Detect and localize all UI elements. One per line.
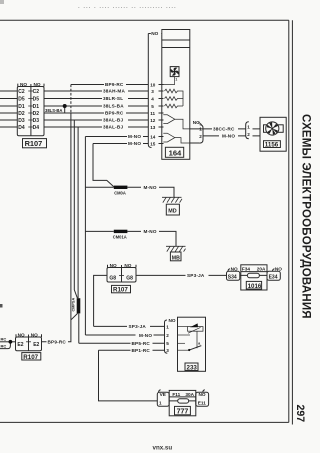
junction node at E2 input — [9, 340, 13, 344]
motor inner band — [264, 125, 284, 133]
motor 1156 body — [260, 117, 286, 151]
svg-text:233: 233 — [187, 364, 198, 371]
bottom link from 164 to bracket — [190, 142, 200, 144]
wire SP3-JA to 233 pin1 — [94, 325, 165, 327]
wire label SP3-JA — [186, 273, 209, 279]
svg-text:M-NO: M-NO — [128, 141, 141, 146]
svg-text:2: 2 — [166, 333, 169, 338]
pressure element box — [188, 327, 204, 332]
E2 pin names — [17, 342, 39, 348]
fuse element wire through — [169, 400, 196, 402]
svg-text:NO: NO — [169, 318, 176, 323]
svg-text:20A: 20A — [257, 267, 266, 272]
svg-text:2: 2 — [199, 134, 202, 139]
svg-text:S34: S34 — [228, 274, 237, 280]
label NO at 164 top — [151, 29, 161, 36]
pin tick 11 — [159, 112, 164, 114]
fuse 777 header line — [169, 396, 196, 398]
pin tick 14 — [159, 136, 164, 138]
branch to splice CM01A — [85, 230, 113, 232]
wire CM0A to ground MD — [127, 187, 174, 197]
svg-text:СХЕМЫ ЭЛЕКТРООБОРУДОВАНИЯ: СХЕМЫ ЭЛЕКТРООБОРУДОВАНИЯ — [300, 114, 312, 319]
unit 164 header line 2 — [162, 47, 190, 49]
ground MB hatch — [166, 246, 186, 251]
svg-text:VE: VE — [160, 392, 166, 397]
svg-text:C2: C2 — [33, 89, 40, 95]
BP1-RC riser down to fuse 777 — [99, 350, 158, 401]
internal stub pin5 — [178, 342, 186, 344]
svg-text:D1: D1 — [18, 104, 25, 110]
wire label BP1-RC (233) — [131, 348, 153, 354]
splice output to E2 row — [71, 313, 78, 319]
wire label M-NO — [219, 133, 238, 138]
svg-text:NO: NO — [20, 82, 27, 87]
svg-text:38AH-MA: 38AH-MA — [103, 89, 125, 94]
arrow 1 output step to pin 1 — [175, 119, 190, 129]
G8 top ears — [108, 265, 137, 268]
resistor R-speed2 — [165, 97, 184, 106]
wire label M-NO (ground MB) — [141, 229, 159, 235]
arrow symbol output 1 — [163, 115, 175, 124]
switch pivot dot — [188, 349, 190, 351]
svg-text:1156: 1156 — [265, 142, 279, 149]
svg-text:NO: NO — [151, 31, 158, 36]
unit 164 header line 1 — [162, 39, 190, 41]
junction stub from node dot down — [64, 106, 66, 113]
svg-text:R107: R107 — [25, 139, 43, 148]
pressure element diagonal — [188, 327, 201, 333]
page frame bottom border — [0, 421, 289, 423]
svg-text:D1: D1 — [33, 104, 40, 110]
wire BP9-RC row pin 10 — [71, 84, 148, 86]
svg-text:38LS-BA: 38LS-BA — [103, 104, 124, 109]
E34 hook — [273, 269, 275, 272]
branch to splice CM0A — [85, 186, 113, 188]
unit 164 body — [162, 30, 190, 160]
wire label M-NO (ground MD) — [141, 184, 159, 190]
svg-text:15: 15 — [150, 141, 156, 146]
internal stub pin2 — [178, 334, 191, 336]
wire run BP9-RC vertical to E2 connector — [42, 113, 71, 342]
svg-text:D4: D4 — [33, 125, 40, 131]
svg-text:2: 2 — [247, 132, 250, 137]
fan wheel blades — [267, 122, 278, 135]
label box R107 (G8) — [112, 285, 131, 293]
svg-text:MB: MB — [172, 255, 180, 261]
svg-text:E2: E2 — [17, 342, 23, 348]
svg-text:13: 13 — [150, 125, 156, 130]
connector E2 divider — [28, 337, 30, 351]
arrow 2 output step to bottom exit — [175, 138, 190, 143]
fan icon glyph inside 164 — [171, 68, 179, 76]
connector R107 (top) top ears — [18, 84, 44, 87]
wire M-NO to 233 pin2 — [85, 334, 164, 336]
svg-text:E2: E2 — [33, 342, 39, 348]
wire SP3-JA from G8 to fuse S34 — [136, 274, 227, 276]
motor connector bracket 1156 — [246, 122, 249, 139]
svg-text:SP3-JA: SP3-JA — [129, 324, 147, 329]
svg-text:NO: NO — [124, 263, 131, 268]
svg-text:1: 1 — [199, 127, 202, 132]
page frame second vertical rule — [291, 20, 293, 424]
wire 38AL-BJ row D3 to pin 12 — [44, 119, 148, 121]
wire stub RC lower from margin joins node — [0, 342, 10, 349]
wire BP1-RC to 233 pin3 — [99, 349, 165, 351]
svg-text:NO: NO — [110, 263, 117, 268]
E2 top ears — [16, 334, 42, 337]
internal feed from pin10 to fan — [164, 77, 175, 85]
fuse 1016 body — [241, 265, 267, 290]
svg-text:1016: 1016 — [248, 283, 262, 290]
page frame top border — [0, 19, 289, 21]
splice output to BP5-RC row — [78, 313, 80, 343]
connector R107 E2 body — [16, 337, 42, 351]
svg-text:30A: 30A — [185, 392, 194, 397]
label box 233 — [185, 363, 198, 371]
connector R107 (top) divider — [30, 87, 32, 136]
svg-text:CMPSA: CMPSA — [72, 298, 76, 312]
wire into R107 pin C2 from left margin — [0, 90, 17, 92]
svg-text:38LS-BA: 38LS-BA — [45, 108, 62, 113]
element to contact vertical — [196, 331, 198, 348]
svg-text:M-NO: M-NO — [128, 134, 141, 139]
connector R107 G8 body — [107, 268, 136, 283]
svg-text:1: 1 — [247, 124, 250, 129]
junction node on wire 38LS-BA — [63, 104, 67, 108]
pin tick 4 — [159, 98, 164, 100]
svg-text:NO: NO — [231, 266, 238, 271]
ground MD hatch — [162, 197, 182, 202]
internal stub pin3 — [178, 349, 189, 351]
label box 1156 — [264, 141, 281, 149]
wire label M-NO (233) — [136, 332, 154, 338]
NO supply stub into 164 top — [148, 33, 162, 35]
fuse element wire through — [240, 274, 267, 276]
svg-text:vnx.su: vnx.su — [153, 444, 173, 451]
svg-text:5: 5 — [151, 104, 154, 109]
233 pin numbers — [166, 324, 169, 353]
svg-text:F11: F11 — [172, 392, 180, 397]
svg-text:D3: D3 — [33, 118, 40, 124]
resistor R-speed3 — [165, 104, 184, 108]
splice CM01A bar — [114, 230, 128, 233]
label box 164 — [165, 147, 183, 157]
svg-text:E34: E34 — [269, 274, 278, 280]
svg-text:777: 777 — [177, 409, 189, 416]
svg-text:SP3-JA: SP3-JA — [187, 273, 205, 278]
svg-text:5: 5 — [166, 341, 169, 346]
svg-text:BP9-RC: BP9-RC — [105, 82, 124, 87]
wire BP9-RC row D2 to pin 11 — [44, 112, 148, 114]
svg-text:4: 4 — [151, 96, 154, 101]
svg-text:10: 10 — [150, 82, 156, 87]
margin wire labels RC — [1, 337, 7, 349]
svg-text:. ... . .... ...... .. .......: . ... . .... ...... .. ......... .... — [78, 4, 177, 10]
corner scan speck — [0, 0, 4, 4]
svg-text:M-NO: M-NO — [139, 333, 152, 338]
svg-text:M-NO: M-NO — [144, 229, 157, 234]
wire 38LR-SL row D5 to pin 4 — [44, 98, 148, 100]
wire 38CC-RC pin1 to motor — [190, 128, 246, 130]
wire 38AH-MA row C2 to pin 3 — [44, 90, 148, 92]
svg-text:NO: NO — [275, 266, 282, 271]
motor connector pin stubs into body — [253, 129, 261, 136]
fan wheel circle — [266, 122, 279, 135]
resistor R-speed1 — [165, 89, 184, 98]
wire BP5-RC to 233 pin5 — [79, 342, 165, 344]
svg-text:CM01A: CM01A — [113, 235, 127, 240]
svg-text:BP9-RC: BP9-RC — [105, 111, 124, 116]
svg-text:CM0A: CM0A — [114, 191, 126, 196]
fuse holder E11 — [196, 392, 209, 406]
svg-text:a: a — [198, 342, 201, 346]
pin tick 13 — [159, 126, 164, 128]
svg-text:38AL-BJ: 38AL-BJ — [103, 125, 123, 130]
wire M-NO row pin 14 — [85, 136, 148, 138]
pressure element arrow head — [190, 323, 198, 327]
fuse holder VE/1 — [157, 392, 169, 406]
E11 hook — [203, 390, 205, 393]
svg-text:BP9-RC: BP9-RC — [48, 340, 67, 345]
svg-text:M-NO: M-NO — [222, 134, 235, 139]
connector R107 (top) pin link stubs across divider — [28, 91, 33, 127]
switch 233 body — [178, 317, 206, 371]
svg-text:M-NO: M-NO — [144, 185, 157, 190]
pin tick 10 — [159, 84, 164, 86]
label box R107 (top) — [23, 139, 47, 148]
svg-text:D5: D5 — [33, 97, 40, 103]
svg-text:G8: G8 — [126, 275, 133, 281]
wire into R107 pin D2 from left margin — [0, 112, 17, 114]
ground MD box — [166, 204, 179, 215]
connector bracket of 164 — [148, 34, 151, 148]
svg-text:BP5-RC: BP5-RC — [132, 341, 151, 346]
output bracket hook to NO — [198, 123, 202, 126]
svg-text:D4: D4 — [18, 125, 25, 131]
connector G8 divider — [121, 268, 123, 283]
connector R107 (top) body — [17, 87, 44, 136]
svg-text:RC: RC — [1, 337, 7, 342]
svg-text:NO: NO — [18, 333, 25, 338]
label box 1016 — [246, 281, 262, 290]
label backgrounds — [102, 82, 143, 146]
left margin speck — [0, 304, 3, 308]
wire 38AL-BJ row D4 to pin 13 — [44, 126, 148, 128]
label box 777 — [175, 406, 191, 415]
svg-text:NO: NO — [199, 392, 206, 397]
wire stub RC upper from margin — [0, 341, 16, 343]
wire into R107 pin D5 from left margin — [0, 98, 17, 100]
svg-text:11: 11 — [150, 111, 155, 116]
wire run M-NO row15 elbow — [93, 144, 114, 187]
wire M-NO row pin 15 — [93, 143, 148, 145]
S34 hook and NO — [228, 269, 230, 272]
fuse holder E34 — [267, 271, 280, 280]
splice CMPSA bar — [77, 298, 81, 313]
svg-text:164: 164 — [169, 149, 182, 158]
svg-text:3: 3 — [166, 348, 169, 353]
svg-text:R107: R107 — [113, 287, 128, 294]
G8 pin names — [109, 275, 133, 281]
fuse symbol F11 — [178, 399, 189, 403]
arrow symbol output 2 — [163, 133, 175, 142]
wire run M-NO ground trunk (row14 down to 233 pin2) — [84, 137, 86, 336]
wire label SP3-JA (233) — [127, 324, 150, 330]
output bracket of 164 — [200, 125, 203, 143]
wire into R107 pin D1 from left margin — [0, 105, 17, 107]
page frame right border — [288, 20, 290, 422]
svg-text:38LR-SL: 38LR-SL — [103, 96, 123, 101]
wire label BP9-RC (E2 row) — [47, 339, 69, 345]
fuse holder S34 — [227, 265, 281, 290]
svg-text:D3: D3 — [18, 118, 25, 124]
splice CM0A bar — [114, 186, 128, 189]
svg-text:1: 1 — [175, 77, 177, 81]
wire run 38AL vertical into splice top — [77, 127, 79, 298]
E2 pin stub across divider — [26, 341, 31, 343]
pin tick 5 — [159, 105, 164, 107]
svg-text:E11: E11 — [198, 400, 206, 405]
svg-text:14: 14 — [150, 134, 156, 139]
svg-text:G8: G8 — [109, 275, 116, 281]
svg-text:D5: D5 — [18, 97, 25, 103]
svg-text:D2: D2 — [18, 111, 25, 117]
wire 38LS-BA row D1 to pin 5 — [44, 105, 148, 107]
svg-text:NO: NO — [34, 82, 41, 87]
wire label BP5-RC (233) — [131, 341, 153, 347]
svg-text:297: 297 — [294, 405, 306, 423]
wire M-NO pin2 to motor — [203, 135, 246, 137]
svg-text:1: 1 — [166, 324, 169, 329]
pin tick 15 — [159, 143, 164, 145]
wire into R107 pin D3 from left margin — [0, 119, 17, 121]
wire run 38AL vertical into splice (diagonal) — [74, 120, 77, 298]
svg-text:NO: NO — [31, 333, 38, 338]
fan motor icon box inside 164 — [170, 67, 179, 77]
fuse symbol F34 — [247, 273, 259, 278]
pin tick 12 — [159, 119, 164, 121]
wire CM01A to ground MB — [127, 231, 176, 246]
svg-text:38AL-BJ: 38AL-BJ — [103, 118, 123, 123]
row wire labels — [103, 82, 141, 146]
pin tick 3 — [159, 90, 164, 92]
dashed link pin10 to pin11 vertical — [70, 85, 72, 114]
svg-text:12: 12 — [150, 118, 156, 123]
svg-text:R107: R107 — [23, 354, 38, 361]
label box R107 (E2) — [22, 353, 41, 361]
internal stub pin1 — [178, 325, 188, 327]
wire label 38CC-RC — [212, 126, 238, 132]
svg-text:RC: RC — [1, 343, 7, 348]
svg-text:38CC-RC: 38CC-RC — [213, 127, 235, 132]
svg-text:3: 3 — [151, 89, 154, 94]
switch arm — [189, 346, 202, 351]
svg-text:1: 1 — [159, 400, 162, 405]
fuse 1016 header line — [241, 271, 267, 273]
wire into R107 pin D4 from left margin — [0, 126, 17, 128]
fuse 777 body — [169, 390, 196, 415]
svg-text:BP1-RC: BP1-RC — [132, 348, 151, 353]
svg-text:C2: C2 — [18, 89, 25, 95]
ground MB box — [170, 252, 181, 261]
G8 pin stub across divider — [119, 274, 124, 276]
VE hook — [159, 390, 161, 393]
svg-text:D2: D2 — [33, 111, 40, 117]
connector bracket of 233 — [165, 320, 168, 353]
svg-text:MD: MD — [168, 209, 176, 215]
wire SP3-JA riser to G8 — [94, 275, 107, 326]
svg-text:F34: F34 — [242, 267, 250, 272]
